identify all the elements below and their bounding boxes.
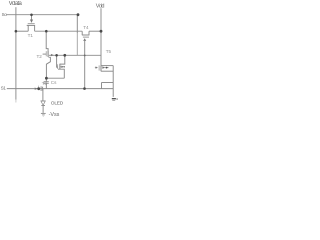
svg-text:-Vss: -Vss: [49, 112, 60, 118]
svg-text:T5: T5: [106, 49, 112, 54]
svg-text:Vdd: Vdd: [96, 4, 105, 10]
svg-text:OLED: OLED: [51, 101, 64, 107]
svg-text:T3: T3: [42, 81, 48, 86]
svg-text:So: So: [2, 12, 8, 17]
svg-text:Vdata: Vdata: [9, 1, 23, 7]
svg-text:T1: T1: [28, 33, 34, 38]
svg-text:S1: S1: [1, 86, 7, 91]
svg-text:T4: T4: [83, 25, 89, 30]
svg-text:T2: T2: [37, 54, 43, 59]
svg-text:Cs: Cs: [51, 80, 57, 85]
